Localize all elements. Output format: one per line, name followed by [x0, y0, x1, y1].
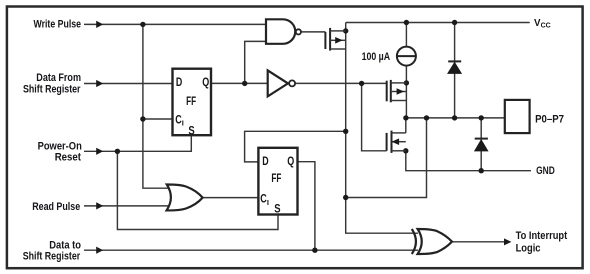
svg-text:I: I — [267, 198, 269, 207]
svg-text:Shift Register: Shift Register — [23, 251, 81, 263]
svg-text:Reset: Reset — [55, 152, 82, 164]
svg-text:Q: Q — [287, 156, 294, 168]
svg-text:P0–P7: P0–P7 — [535, 114, 564, 126]
svg-text:FF: FF — [186, 96, 196, 108]
svg-text:Q: Q — [202, 77, 209, 89]
svg-text:Write Pulse: Write Pulse — [34, 19, 82, 31]
svg-text:I: I — [182, 119, 184, 128]
svg-text:Logic: Logic — [516, 242, 541, 254]
svg-text:C: C — [260, 194, 267, 206]
svg-text:C: C — [175, 114, 182, 126]
svg-text:Data From: Data From — [36, 72, 81, 84]
svg-text:GND: GND — [536, 165, 555, 177]
svg-text:CC: CC — [541, 23, 551, 30]
svg-text:To Interrupt: To Interrupt — [516, 230, 568, 242]
svg-text:S: S — [274, 204, 281, 216]
svg-text:D: D — [176, 77, 182, 89]
svg-text:Shift Register: Shift Register — [23, 84, 81, 96]
svg-text:FF: FF — [271, 173, 281, 185]
svg-text:S: S — [188, 126, 195, 138]
svg-text:Read Pulse: Read Pulse — [32, 201, 80, 213]
svg-text:100 µA: 100 µA — [362, 51, 391, 63]
svg-text:D: D — [262, 156, 268, 168]
